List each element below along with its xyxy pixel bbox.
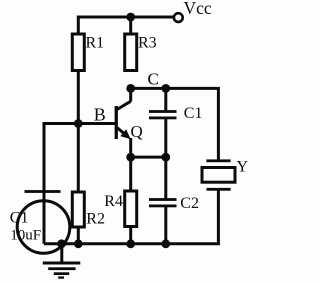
capacitor C2 bbox=[149, 198, 177, 207]
transistor Q bbox=[115, 101, 131, 139]
svg-text:R1: R1 bbox=[86, 35, 105, 52]
junction dot collector at R3 bbox=[126, 84, 135, 93]
wire R2 top lead bbox=[77, 124, 80, 193]
resistor R3 bbox=[125, 34, 137, 71]
svg-text:R2: R2 bbox=[86, 210, 105, 227]
wire top rail Vcc bbox=[78, 17, 174, 35]
wire R3 top lead bbox=[129, 17, 132, 35]
wire C2 top lead bbox=[164, 157, 167, 198]
capacitor C1 10uF electrolytic body circle bbox=[17, 201, 70, 254]
junction dot ground node at R4 bbox=[126, 239, 135, 248]
crystal Y bbox=[202, 159, 235, 190]
svg-text:R3: R3 bbox=[138, 35, 157, 52]
svg-text:Vcc: Vcc bbox=[184, 0, 212, 18]
junction dot collector at C1 bbox=[161, 84, 170, 93]
wire emitter lead bbox=[129, 138, 132, 159]
svg-text:Y: Y bbox=[237, 158, 249, 175]
wire C1 bottom lead bbox=[164, 119, 167, 159]
wire R1 bottom to base node bbox=[77, 71, 80, 126]
wire collector node rail to crystal top bbox=[129, 88, 218, 160]
wire base node to transistor base and down left to cap plate bbox=[44, 124, 116, 192]
resistor R2 bbox=[72, 192, 84, 227]
svg-text:C1: C1 bbox=[10, 209, 29, 226]
ground bbox=[43, 244, 81, 279]
wire C1 top lead bbox=[164, 88, 167, 110]
resistor R1 bbox=[72, 34, 84, 71]
capacitor C1 10uF electrolytic plate bbox=[25, 190, 61, 193]
svg-text:C1: C1 bbox=[184, 105, 203, 122]
junction dot ground node at R2 bbox=[74, 239, 83, 248]
wire C2 bottom lead bbox=[164, 207, 167, 245]
wire collector lead bbox=[129, 88, 132, 101]
wire emitter node bbox=[129, 156, 166, 159]
wire bottom rail and crystal bottom lead bbox=[44, 190, 218, 244]
junction dot emitter at C2 bbox=[161, 153, 170, 162]
resistor R4 bbox=[125, 191, 137, 227]
wire R4 bottom lead bbox=[129, 227, 132, 246]
svg-text:10uF: 10uF bbox=[10, 228, 41, 244]
junction dot ground node at C2 bbox=[161, 239, 170, 248]
svg-text:B: B bbox=[94, 105, 106, 125]
junction dot top rail at R3 bbox=[126, 13, 135, 22]
svg-text:C2: C2 bbox=[180, 195, 199, 212]
svg-text:R4: R4 bbox=[104, 193, 123, 210]
junction dot ground node at circle bbox=[57, 239, 66, 248]
terminal Vcc bbox=[174, 13, 183, 22]
junction dot base node bbox=[74, 119, 83, 128]
wire electrolytic lead through bbox=[43, 193, 46, 244]
svg-text:Q: Q bbox=[131, 122, 143, 141]
wire R4 top lead bbox=[129, 157, 132, 191]
capacitor C1 bbox=[149, 110, 177, 119]
svg-text:C: C bbox=[148, 69, 159, 88]
junction dot emitter at R4 bbox=[126, 153, 135, 162]
wire R2 bottom lead bbox=[77, 227, 80, 245]
